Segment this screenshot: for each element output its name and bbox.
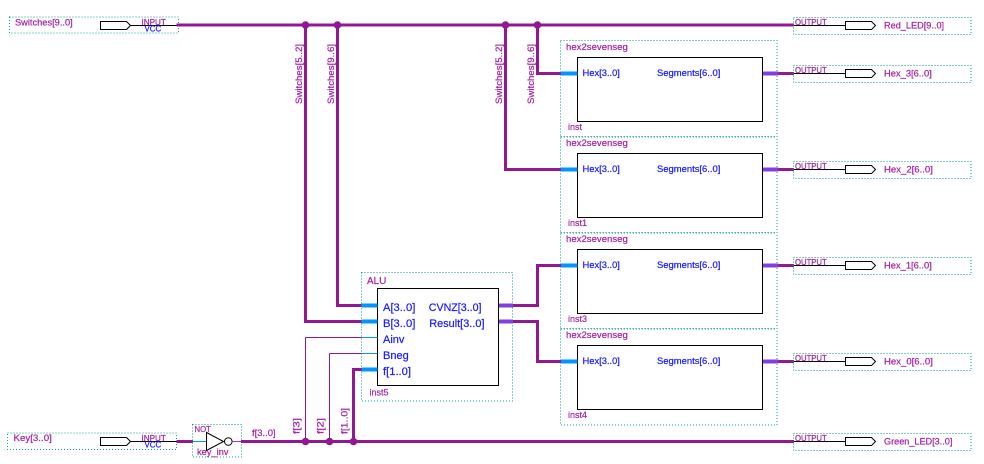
wire Key bus to NOT gate xyxy=(177,440,194,443)
hex2sevenseg inst3 body xyxy=(578,250,763,314)
wire CVNZ to inst3 Hex xyxy=(513,304,539,307)
hex2sevenseg inst4 pin Hex[3..0] stub xyxy=(561,360,578,364)
ALU inst5 body xyxy=(378,289,499,386)
junction top rail at Switches[5..2] left xyxy=(302,21,310,29)
ALU pin CVNZ[3..0] stub xyxy=(499,304,513,308)
hex2sevenseg inst4 selection box xyxy=(561,329,778,426)
wire bus f[3..0] bottom rail xyxy=(241,440,794,443)
svg-text:Switches[9..6]: Switches[9..6] xyxy=(326,44,336,104)
svg-text:OUTPUT: OUTPUT xyxy=(795,354,827,363)
svg-text:Segments[6..0]: Segments[6..0] xyxy=(657,68,720,78)
junction bottom rail at f[1..0] xyxy=(350,438,358,446)
junction top rail at Switches[9..6] left xyxy=(334,21,342,29)
wire inst1 Segments to output pin xyxy=(779,168,795,171)
input pin Key[3..0] arrow symbol xyxy=(101,438,131,446)
svg-text:Segments[6..0]: Segments[6..0] xyxy=(657,356,720,366)
svg-text:Hex_1[6..0]: Hex_1[6..0] xyxy=(884,260,932,270)
svg-text:hex2sevenseg: hex2sevenseg xyxy=(566,138,628,148)
svg-text:OUTPUT: OUTPUT xyxy=(795,162,827,171)
hex2sevenseg inst body xyxy=(578,58,763,122)
svg-text:Ainv: Ainv xyxy=(383,334,405,346)
svg-text:inst5: inst5 xyxy=(370,388,389,398)
svg-text:ALU: ALU xyxy=(367,276,386,287)
wire Switches bus top rail xyxy=(177,24,795,27)
ALU pin f[1..0] stub xyxy=(362,368,378,372)
wire bus f[1..0] xyxy=(354,368,362,371)
hex2sevenseg inst pin Segments[6..0] stub xyxy=(763,72,779,76)
svg-text:Red_LED[9..0]: Red_LED[9..0] xyxy=(884,20,944,30)
wire Switches[5..2] branch to inst1 xyxy=(504,24,507,172)
svg-text:NOT: NOT xyxy=(195,425,212,434)
hex2sevenseg inst3 pin Hex[3..0] stub xyxy=(561,264,578,268)
ALU pin Bneg stub xyxy=(362,353,378,355)
input pin Key[3..0] lead line xyxy=(131,441,177,443)
svg-text:OUTPUT: OUTPUT xyxy=(795,258,827,267)
ALU pin Ainv stub xyxy=(362,337,378,339)
junction bottom rail at f[3] xyxy=(302,438,310,446)
svg-text:Hex[3..0]: Hex[3..0] xyxy=(583,68,620,78)
wire net f[2] to Bneg xyxy=(330,353,362,355)
svg-text:VCC: VCC xyxy=(145,25,162,34)
svg-text:inst: inst xyxy=(568,122,583,132)
wire Switches[5..2] branch to ALU B xyxy=(304,24,307,324)
svg-text:f[2]: f[2] xyxy=(316,418,326,434)
svg-text:Hex_2[6..0]: Hex_2[6..0] xyxy=(884,164,933,174)
input pin Switches[9..0] lead line xyxy=(131,25,178,27)
svg-text:Bneg: Bneg xyxy=(383,350,409,362)
hex2sevenseg inst4 pin Segments[6..0] stub xyxy=(763,360,779,364)
svg-text:Switches[9..6]: Switches[9..6] xyxy=(526,44,536,104)
junction bottom rail at f[2] xyxy=(326,438,334,446)
hex2sevenseg inst3 pin Segments[6..0] stub xyxy=(763,264,779,268)
svg-text:OUTPUT: OUTPUT xyxy=(795,66,827,75)
svg-text:hex2sevenseg: hex2sevenseg xyxy=(566,330,628,340)
wire inst4 Segments to output pin xyxy=(779,360,795,363)
wire Switches[9..6] branch to ALU A xyxy=(336,24,339,308)
svg-text:OUTPUT: OUTPUT xyxy=(795,18,827,27)
hex2sevenseg inst selection box xyxy=(561,41,778,138)
svg-text:inst4: inst4 xyxy=(568,410,587,420)
svg-text:Hex_3[6..0]: Hex_3[6..0] xyxy=(884,68,932,78)
svg-text:OUTPUT: OUTPUT xyxy=(795,434,827,443)
output pin Red_LED[9..0] xyxy=(794,18,972,35)
svg-text:Switches[9..0]: Switches[9..0] xyxy=(15,18,73,28)
svg-text:VCC: VCC xyxy=(145,441,162,450)
svg-text:Switches[5..2]: Switches[5..2] xyxy=(294,44,304,104)
hex2sevenseg inst1 selection box xyxy=(561,137,778,234)
svg-text:f[3]: f[3] xyxy=(292,418,302,434)
svg-text:Hex[3..0]: Hex[3..0] xyxy=(583,260,620,270)
svg-text:key_inv: key_inv xyxy=(197,447,229,457)
NOT gate key_inv output stub xyxy=(232,441,241,443)
ALU pin B[3..0] stub xyxy=(362,320,378,324)
output pin Hex_0[6..0] xyxy=(794,354,972,371)
svg-text:Switches[5..2]: Switches[5..2] xyxy=(494,44,504,104)
svg-text:Result[3..0]: Result[3..0] xyxy=(429,318,484,330)
svg-text:CVNZ[3..0]: CVNZ[3..0] xyxy=(429,302,482,314)
svg-text:Segments[6..0]: Segments[6..0] xyxy=(657,164,720,174)
output pin Green_LED[3..0] xyxy=(794,434,972,451)
input pin Key[3..0] selection box xyxy=(8,433,177,450)
wire net f[3] to Ainv xyxy=(306,337,362,339)
wire Switches[9..6] branch to inst xyxy=(536,24,539,76)
output pin Hex_1[6..0] xyxy=(794,258,972,275)
svg-text:inst3: inst3 xyxy=(568,314,587,324)
NOT gate key_inv input stub xyxy=(193,441,207,443)
svg-text:A[3..0]: A[3..0] xyxy=(383,302,415,314)
svg-text:Green_LED[3..0]: Green_LED[3..0] xyxy=(884,436,952,446)
NOT gate key_inv triangle xyxy=(207,433,224,451)
hex2sevenseg inst pin Hex[3..0] stub xyxy=(561,72,578,76)
wire inst Segments to output pin xyxy=(779,72,795,75)
svg-text:Hex[3..0]: Hex[3..0] xyxy=(583,164,620,174)
hex2sevenseg inst1 pin Segments[6..0] stub xyxy=(763,168,779,172)
svg-text:B[3..0]: B[3..0] xyxy=(383,318,415,330)
junction top rail at Switches[5..2] right xyxy=(502,21,510,29)
hex2sevenseg inst3 selection box xyxy=(561,233,778,330)
svg-text:Segments[6..0]: Segments[6..0] xyxy=(657,260,720,270)
output pin Hex_3[6..0] xyxy=(794,66,972,83)
hex2sevenseg inst1 body xyxy=(578,154,763,218)
ALU pin Result[3..0] stub xyxy=(499,320,513,324)
output pin Hex_2[6..0] xyxy=(794,162,972,179)
svg-text:hex2sevenseg: hex2sevenseg xyxy=(566,42,628,52)
hex2sevenseg inst1 pin Hex[3..0] stub xyxy=(561,168,578,172)
svg-text:f[1..0]: f[1..0] xyxy=(340,408,350,434)
hex2sevenseg inst4 body xyxy=(578,346,763,410)
svg-text:Hex[3..0]: Hex[3..0] xyxy=(583,356,620,366)
svg-text:f[3..0]: f[3..0] xyxy=(252,428,276,438)
input pin Switches[9..0] selection box xyxy=(10,17,179,33)
input pin Switches[9..0] arrow symbol xyxy=(101,22,131,30)
svg-text:f[1..0]: f[1..0] xyxy=(383,366,411,378)
NOT gate key_inv bubble xyxy=(225,438,233,446)
wire inst3 Segments to output pin xyxy=(779,264,795,267)
svg-text:inst1: inst1 xyxy=(568,218,587,228)
NOT gate key_inv selection box xyxy=(193,425,242,458)
svg-text:Key[3..0]: Key[3..0] xyxy=(14,433,52,443)
wire Result to inst4 Hex xyxy=(513,320,539,323)
svg-text:Hex_0[6..0]: Hex_0[6..0] xyxy=(884,356,933,366)
ALU pin A[3..0] stub xyxy=(362,304,378,308)
svg-text:hex2sevenseg: hex2sevenseg xyxy=(566,234,628,244)
junction top rail at Switches[9..6] right xyxy=(534,21,542,29)
ALU inst5 selection box xyxy=(362,273,513,402)
